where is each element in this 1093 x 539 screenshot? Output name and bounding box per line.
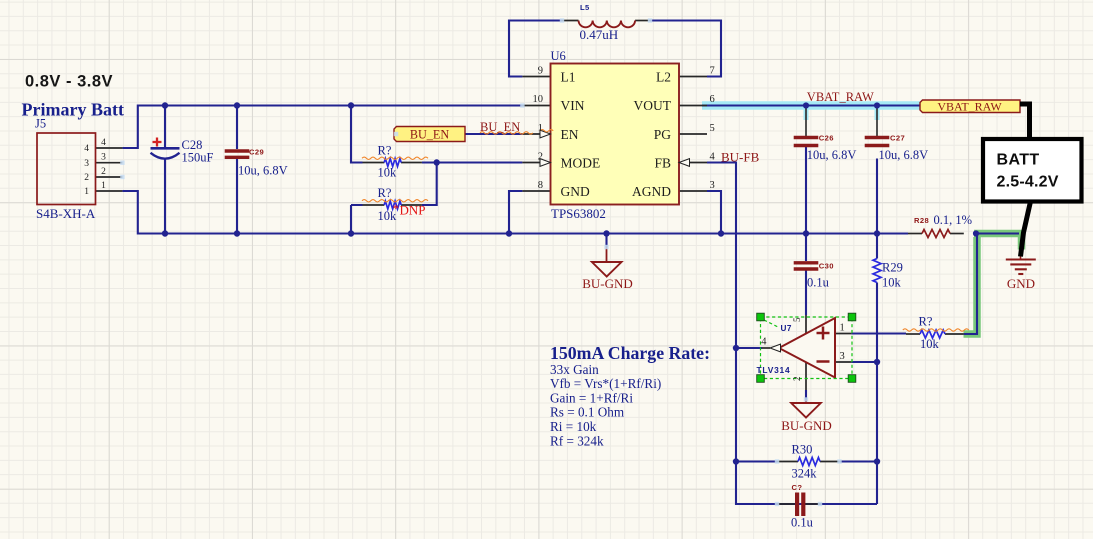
svg-text:4: 4 bbox=[101, 138, 106, 148]
svg-text:VOUT: VOUT bbox=[634, 98, 672, 113]
svg-text:C26: C26 bbox=[819, 134, 834, 143]
svg-text:VBAT_RAW: VBAT_RAW bbox=[937, 100, 1002, 114]
svg-text:FB: FB bbox=[654, 156, 671, 171]
svg-text:J5: J5 bbox=[35, 117, 46, 131]
svg-text:EN: EN bbox=[561, 127, 579, 142]
svg-text:GND: GND bbox=[561, 184, 590, 199]
svg-text:C?: C? bbox=[792, 483, 803, 492]
svg-text:9: 9 bbox=[538, 66, 543, 77]
svg-text:L1: L1 bbox=[561, 70, 576, 85]
svg-text:324k: 324k bbox=[792, 467, 818, 481]
svg-text:Ri = 10k: Ri = 10k bbox=[550, 419, 597, 434]
svg-text:2: 2 bbox=[84, 173, 89, 183]
svg-text:BU_EN: BU_EN bbox=[480, 120, 520, 134]
svg-text:R?: R? bbox=[378, 144, 392, 158]
svg-text:4: 4 bbox=[761, 337, 767, 348]
svg-text:R?: R? bbox=[919, 315, 933, 329]
svg-text:3: 3 bbox=[101, 153, 106, 163]
svg-text:10k: 10k bbox=[378, 166, 398, 180]
svg-text:33x Gain: 33x Gain bbox=[550, 362, 599, 377]
svg-text:8: 8 bbox=[538, 180, 543, 191]
svg-text:4: 4 bbox=[710, 152, 716, 163]
svg-text:AGND: AGND bbox=[632, 184, 671, 199]
svg-text:BU_EN: BU_EN bbox=[410, 127, 449, 141]
svg-text:Vfb = Vrs*(1+Rf/Ri): Vfb = Vrs*(1+Rf/Ri) bbox=[550, 376, 661, 391]
svg-text:150uF: 150uF bbox=[182, 151, 214, 165]
svg-text:5: 5 bbox=[792, 317, 802, 322]
svg-text:0.1u: 0.1u bbox=[791, 516, 814, 530]
svg-text:VIN: VIN bbox=[561, 98, 585, 113]
svg-text:0.47uH: 0.47uH bbox=[580, 27, 619, 42]
svg-text:0.1u: 0.1u bbox=[807, 276, 830, 290]
svg-text:C29: C29 bbox=[249, 148, 264, 157]
svg-text:TLV314: TLV314 bbox=[757, 365, 791, 375]
svg-text:*: * bbox=[393, 201, 400, 216]
svg-text:Rs = 0.1 Ohm: Rs = 0.1 Ohm bbox=[550, 405, 625, 420]
svg-text:3: 3 bbox=[84, 159, 89, 169]
svg-text:GND: GND bbox=[1007, 276, 1035, 291]
svg-text:2: 2 bbox=[101, 167, 106, 177]
svg-text:1: 1 bbox=[840, 323, 845, 334]
svg-text:R30: R30 bbox=[792, 443, 813, 457]
svg-text:4: 4 bbox=[84, 144, 89, 154]
svg-text:10u, 6.8V: 10u, 6.8V bbox=[807, 148, 857, 162]
svg-text:5: 5 bbox=[710, 123, 715, 134]
svg-text:10u, 6.8V: 10u, 6.8V bbox=[238, 164, 288, 178]
svg-text:VBAT_RAW: VBAT_RAW bbox=[807, 90, 874, 104]
svg-text:C27: C27 bbox=[890, 134, 905, 143]
svg-text:PG: PG bbox=[654, 127, 672, 142]
svg-text:Rf = 324k: Rf = 324k bbox=[550, 433, 604, 448]
svg-text:150mA Charge Rate:: 150mA Charge Rate: bbox=[550, 343, 710, 363]
svg-text:10k: 10k bbox=[882, 276, 902, 290]
svg-text:MODE: MODE bbox=[561, 156, 601, 171]
svg-text:TPS63802: TPS63802 bbox=[551, 206, 606, 221]
svg-text:Gain = 1+Rf/Ri: Gain = 1+Rf/Ri bbox=[550, 390, 633, 405]
svg-text:0.8V - 3.8V: 0.8V - 3.8V bbox=[25, 73, 113, 91]
svg-text:BATT: BATT bbox=[997, 152, 1040, 169]
svg-text:10k: 10k bbox=[920, 337, 940, 351]
svg-text:R?: R? bbox=[378, 186, 392, 200]
svg-text:1: 1 bbox=[538, 123, 543, 134]
svg-text:BU-FB: BU-FB bbox=[721, 150, 760, 165]
svg-text:0.1, 1%: 0.1, 1% bbox=[934, 213, 973, 227]
svg-text:C30: C30 bbox=[819, 261, 834, 270]
svg-text:1: 1 bbox=[84, 187, 89, 197]
svg-text:2: 2 bbox=[792, 377, 802, 382]
svg-text:U6: U6 bbox=[551, 49, 566, 63]
svg-text:R29: R29 bbox=[882, 261, 903, 275]
svg-text:10: 10 bbox=[533, 94, 544, 105]
svg-text:3: 3 bbox=[840, 351, 845, 362]
svg-text:7: 7 bbox=[710, 66, 715, 77]
svg-text:BU-GND: BU-GND bbox=[781, 418, 832, 433]
svg-text:3: 3 bbox=[710, 180, 715, 191]
svg-text:L2: L2 bbox=[656, 70, 671, 85]
svg-text:DNP: DNP bbox=[400, 203, 426, 218]
svg-text:BU-GND: BU-GND bbox=[582, 276, 633, 291]
svg-text:U7: U7 bbox=[781, 324, 792, 333]
svg-text:S4B-XH-A: S4B-XH-A bbox=[36, 206, 96, 221]
svg-text:2.5-4.2V: 2.5-4.2V bbox=[997, 174, 1059, 191]
svg-text:6: 6 bbox=[710, 94, 715, 105]
svg-text:10u, 6.8V: 10u, 6.8V bbox=[879, 148, 929, 162]
svg-text:R28: R28 bbox=[914, 216, 929, 225]
svg-text:L5: L5 bbox=[580, 3, 590, 12]
svg-text:1: 1 bbox=[101, 181, 106, 191]
svg-text:2: 2 bbox=[538, 152, 543, 163]
